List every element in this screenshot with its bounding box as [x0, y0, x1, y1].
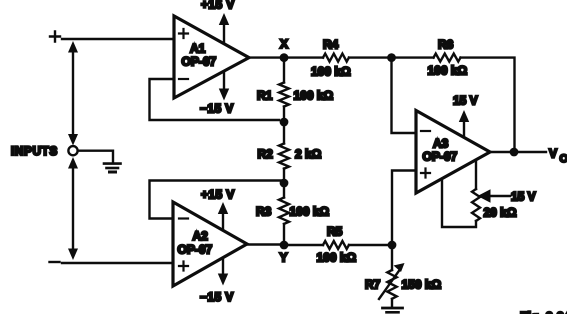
wire: junction up to A3 + input [392, 171, 416, 246]
svg-text:R4: R4 [323, 38, 339, 52]
ground (input common) [104, 162, 121, 165]
svg-text:−15 V: −15 V [200, 102, 234, 116]
potentiometer R7 150k [391, 245, 393, 270]
svg-text:R1: R1 [257, 89, 273, 103]
svg-text:100 kΩ: 100 kΩ [428, 64, 468, 78]
node X [280, 53, 289, 62]
op-amp A2 [173, 202, 247, 286]
node: output junction [510, 148, 519, 157]
node: plus input label [50, 32, 60, 42]
R7 wiper arrow [379, 270, 400, 299]
resistor R3 [283, 183, 285, 198]
svg-text:OP-07: OP-07 [178, 243, 213, 257]
svg-text:Fig. 2-24: Fig. 2-24 [520, 310, 567, 314]
svg-text:A1: A1 [190, 42, 206, 56]
potentiometer 20k (offset trim) [475, 160, 477, 189]
svg-text:R2: R2 [258, 147, 274, 161]
svg-text:15 V: 15 V [511, 190, 536, 204]
wire: - input to A2 [62, 262, 173, 264]
op-amp A1 [174, 16, 249, 98]
svg-text:V: V [549, 147, 557, 161]
wire: A1 output to X [249, 56, 284, 58]
node: R2/R3 junction [280, 179, 289, 188]
node: R4/R6/A3- junction [387, 53, 396, 62]
node: minus input label [50, 261, 60, 263]
node: R5/R7/A3+ junction [388, 241, 397, 250]
svg-text:R7: R7 [365, 278, 381, 292]
resistor R6 [392, 56, 434, 58]
resistor R2 [283, 122, 285, 144]
node Y [280, 241, 289, 250]
power +15V of A2 [222, 211, 224, 229]
svg-text:−15 V: −15 V [200, 290, 234, 304]
svg-text:100 kΩ: 100 kΩ [290, 205, 330, 219]
svg-text:R6: R6 [438, 38, 454, 52]
wire: A1 feedback to R1/R2 node [150, 79, 280, 120]
wire: input left rail lower segment with arrows [72, 166, 74, 251]
wire: + input to A1 [62, 38, 174, 40]
svg-text:Y: Y [280, 251, 288, 265]
wiper arrow with 15 V [490, 195, 510, 197]
wire: circle to ground [78, 151, 113, 162]
svg-text:R3: R3 [256, 205, 272, 219]
power -15V of A1 [223, 72, 225, 91]
wire: R4 junction down to A3 - input [392, 58, 417, 133]
power +15V of A1 [223, 22, 225, 43]
svg-text:15 V: 15 V [453, 94, 478, 108]
svg-text:100 kΩ: 100 kΩ [311, 65, 351, 79]
node: INPUTS terminal circle [68, 146, 77, 155]
svg-text:100 kΩ: 100 kΩ [294, 89, 334, 103]
svg-text:A2: A2 [193, 229, 209, 243]
resistor R4 [284, 56, 323, 58]
power 15V of A3 [463, 119, 465, 137]
node: R1/R2 junction [280, 118, 289, 127]
svg-text:OP-07: OP-07 [423, 150, 458, 164]
svg-text:INPUTS: INPUTS [11, 146, 58, 158]
power -15V of A2 [222, 258, 224, 274]
svg-text:100 kΩ: 100 kΩ [317, 251, 357, 265]
svg-text:OP-07: OP-07 [182, 55, 217, 69]
svg-text:+15 V: +15 V [201, 188, 235, 202]
ground under R7 [383, 307, 403, 310]
wire: A3 output to Vo [490, 151, 546, 153]
svg-text:20 kΩ: 20 kΩ [484, 206, 517, 220]
svg-text:R5: R5 [327, 225, 343, 239]
svg-text:A3: A3 [433, 137, 449, 151]
wire: A2 feedback from R2/R3 node [150, 181, 285, 219]
svg-text:150 kΩ: 150 kΩ [402, 278, 442, 292]
svg-text:O: O [560, 153, 567, 165]
resistor R5 [284, 244, 323, 246]
op-amp A3 [416, 111, 490, 194]
resistor R1 [283, 58, 285, 83]
wire: A2 output to Y [247, 243, 284, 245]
svg-text:2 kΩ: 2 kΩ [295, 147, 322, 161]
svg-text:X: X [280, 37, 288, 51]
svg-text:+15 V: +15 V [201, 0, 235, 12]
wire: input left rail upper segment with arrows [72, 50, 74, 136]
